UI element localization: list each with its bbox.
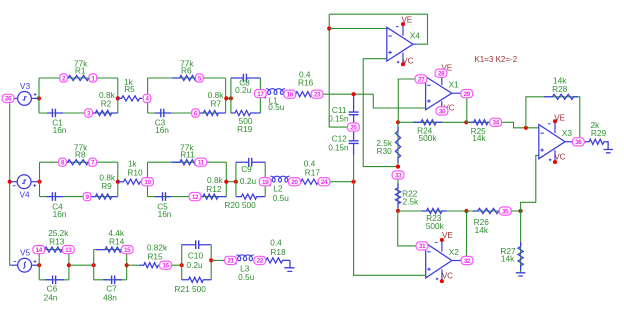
svg-text:16n: 16n — [155, 125, 169, 135]
svg-text:R9: R9 — [101, 181, 112, 191]
svg-text:15: 15 — [124, 247, 131, 254]
svg-text:R30: R30 — [377, 146, 393, 156]
svg-text:VE: VE — [401, 16, 412, 25]
svg-text:14k: 14k — [475, 225, 489, 235]
svg-text:X1: X1 — [449, 80, 460, 90]
svg-text:0.2u: 0.2u — [235, 85, 252, 95]
svg-text:0.5u: 0.5u — [273, 193, 290, 203]
svg-text:10: 10 — [144, 179, 151, 186]
svg-text:36: 36 — [575, 139, 582, 146]
svg-text:R21 500: R21 500 — [175, 284, 207, 294]
svg-text:R13: R13 — [49, 236, 65, 246]
svg-text:25: 25 — [350, 124, 357, 131]
svg-text:18: 18 — [287, 92, 294, 99]
svg-text:R5: R5 — [124, 84, 135, 94]
svg-text:R17: R17 — [305, 167, 321, 177]
svg-text:32: 32 — [464, 258, 471, 265]
svg-text:26: 26 — [5, 96, 12, 103]
svg-text:14k: 14k — [472, 133, 486, 143]
svg-text:VC: VC — [554, 153, 565, 162]
svg-text:21: 21 — [227, 258, 234, 265]
svg-text:R10: R10 — [127, 167, 143, 177]
svg-text:X2: X2 — [449, 247, 460, 257]
svg-text:VE: VE — [442, 231, 453, 240]
svg-text:X4: X4 — [410, 31, 421, 41]
svg-text:29: 29 — [464, 91, 471, 98]
svg-text:0.2u: 0.2u — [240, 176, 257, 186]
svg-text:0.2u: 0.2u — [187, 260, 204, 270]
svg-text:19: 19 — [262, 179, 269, 186]
svg-text:33: 33 — [395, 172, 402, 179]
svg-text:35: 35 — [502, 208, 509, 215]
svg-text:500k: 500k — [419, 133, 438, 143]
svg-text:24n: 24n — [44, 293, 58, 303]
svg-text:R11: R11 — [180, 149, 195, 159]
svg-text:16n: 16n — [53, 125, 67, 135]
svg-text:X3: X3 — [562, 128, 573, 138]
svg-text:C9: C9 — [241, 164, 252, 174]
svg-text:27: 27 — [418, 76, 425, 83]
svg-text:0.15n: 0.15n — [328, 144, 348, 153]
svg-text:R1: R1 — [75, 65, 86, 75]
svg-text:14k: 14k — [501, 254, 515, 264]
svg-text:V5: V5 — [20, 248, 31, 258]
svg-text:16n: 16n — [53, 209, 67, 219]
svg-text:24: 24 — [321, 179, 328, 186]
svg-text:0.5u: 0.5u — [268, 102, 285, 112]
svg-text:K1=3 K2=-2: K1=3 K2=-2 — [474, 55, 517, 64]
svg-text:R15: R15 — [147, 252, 163, 262]
svg-text:VC: VC — [402, 56, 413, 65]
svg-text:13: 13 — [65, 247, 72, 254]
svg-text:16: 16 — [162, 263, 169, 270]
svg-text:R29: R29 — [591, 128, 607, 138]
svg-text:R19: R19 — [237, 124, 253, 134]
svg-text:20: 20 — [291, 179, 298, 186]
svg-text:500k: 500k — [426, 221, 445, 231]
svg-text:0.15n: 0.15n — [328, 115, 348, 124]
svg-text:R2: R2 — [101, 99, 112, 109]
svg-text:48n: 48n — [103, 293, 117, 303]
svg-text:C10: C10 — [188, 250, 204, 260]
svg-text:R8: R8 — [75, 149, 86, 159]
svg-text:R16: R16 — [298, 78, 314, 88]
svg-text:14: 14 — [36, 247, 43, 254]
svg-text:R7: R7 — [210, 98, 221, 108]
svg-text:28: 28 — [438, 71, 445, 78]
svg-text:R12: R12 — [206, 184, 222, 194]
svg-text:31: 31 — [419, 243, 426, 250]
svg-text:R6: R6 — [181, 65, 192, 75]
svg-text:0.5u: 0.5u — [238, 272, 255, 282]
svg-text:R20 500: R20 500 — [224, 200, 256, 210]
svg-text:11: 11 — [198, 160, 205, 167]
svg-text:VC: VC — [442, 272, 453, 281]
svg-text:C12: C12 — [332, 134, 348, 144]
svg-text:C11: C11 — [332, 105, 347, 115]
svg-text:30: 30 — [439, 108, 446, 115]
svg-text:R14: R14 — [109, 236, 125, 246]
svg-text:34: 34 — [492, 120, 499, 127]
svg-text:VE: VE — [554, 113, 565, 122]
svg-text:V4: V4 — [20, 190, 31, 200]
svg-text:2.5k: 2.5k — [402, 196, 419, 206]
svg-text:12: 12 — [192, 194, 199, 201]
svg-text:V3: V3 — [20, 81, 31, 91]
svg-text:R18: R18 — [270, 247, 286, 257]
svg-text:23: 23 — [314, 92, 321, 99]
svg-text:R28: R28 — [552, 84, 568, 94]
svg-text:22: 22 — [257, 258, 264, 265]
svg-text:16n: 16n — [158, 209, 172, 219]
svg-text:17: 17 — [257, 91, 264, 98]
